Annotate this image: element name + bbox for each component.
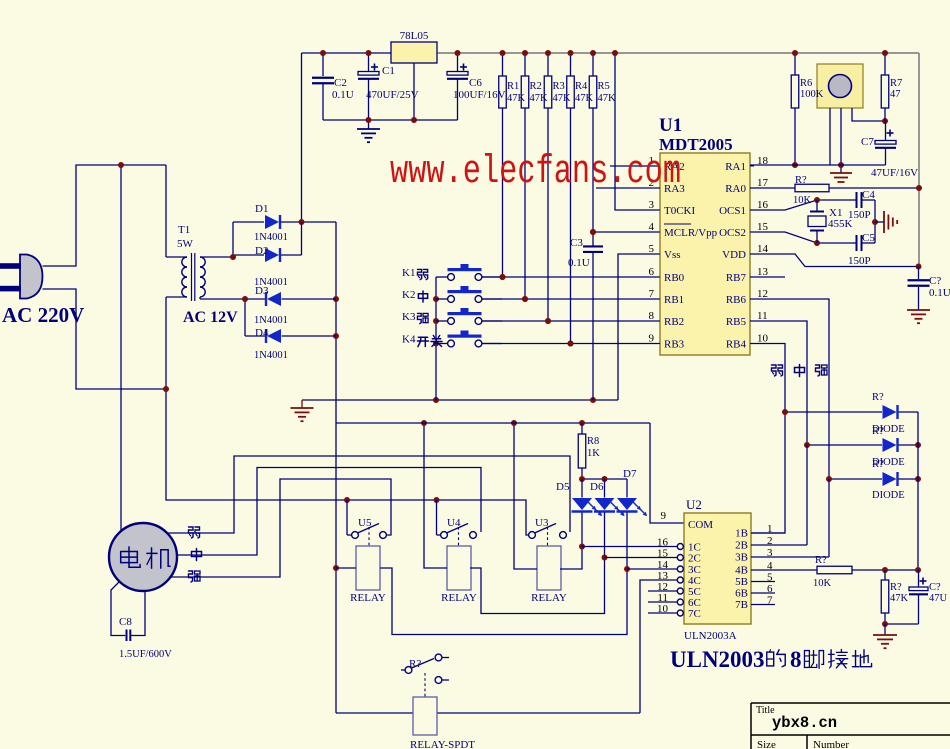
LED D7 xyxy=(626,479,628,498)
svg-text:8: 8 xyxy=(649,310,655,322)
wire +12V rail down to relays xyxy=(335,222,337,713)
labels weak mid strong xyxy=(772,365,783,376)
IC U2 ULN2003A xyxy=(684,513,751,624)
diode row 3 xyxy=(829,478,882,480)
crystal X1 455K xyxy=(816,200,818,212)
resistor R3 47K xyxy=(547,53,549,76)
svg-text:U4: U4 xyxy=(447,517,461,529)
wire 2C row xyxy=(605,557,678,559)
svg-text:R?: R? xyxy=(872,426,884,437)
wire U4 contact riser xyxy=(436,500,438,535)
svg-text:3: 3 xyxy=(649,199,655,211)
svg-text:RB4: RB4 xyxy=(726,339,747,351)
svg-text:D7: D7 xyxy=(623,468,637,480)
regulator 78L05 xyxy=(391,42,437,63)
svg-text:Vss: Vss xyxy=(664,249,681,261)
wire filter ground bus xyxy=(323,119,458,121)
wire MCLR row xyxy=(593,231,660,233)
svg-text:Size: Size xyxy=(757,739,776,749)
label strong at motor xyxy=(189,571,201,582)
svg-text:R?: R? xyxy=(815,555,827,566)
svg-text:D2: D2 xyxy=(255,245,268,257)
wire D3 D4 cathodes xyxy=(244,299,246,336)
svg-text:D5: D5 xyxy=(556,481,570,493)
svg-text:D4: D4 xyxy=(255,327,269,339)
wire Vss riser xyxy=(618,254,660,400)
svg-text:78L05: 78L05 xyxy=(400,30,429,42)
capacitor C? 0.1U at VDD xyxy=(918,267,920,280)
svg-text:47K: 47K xyxy=(507,93,526,104)
U2 pin 16 1C xyxy=(677,544,683,550)
svg-text:D3: D3 xyxy=(255,285,269,297)
IR sensor module xyxy=(817,64,863,108)
wire OCS1 to crystal top xyxy=(750,200,857,210)
relay U3 switch xyxy=(529,532,536,539)
svg-text:1B: 1B xyxy=(735,528,748,540)
label weak at motor xyxy=(189,527,200,538)
diode D1 1N4001 xyxy=(265,215,279,229)
resistor R? 10K (RA0) xyxy=(750,187,795,189)
wire main ground row xyxy=(302,399,618,401)
wire motor strong xyxy=(169,479,391,577)
svg-text:0.1U: 0.1U xyxy=(929,287,950,299)
svg-text:C4: C4 xyxy=(862,189,875,201)
svg-text:C5: C5 xyxy=(862,232,875,244)
svg-text:T0CKI: T0CKI xyxy=(664,205,696,217)
svg-text:R?: R? xyxy=(872,392,884,403)
label on-off xyxy=(417,337,428,346)
svg-text:5W: 5W xyxy=(177,238,194,250)
relay U4 coil box xyxy=(447,546,471,590)
svg-text:C7: C7 xyxy=(861,136,874,148)
resistor R7 47 xyxy=(884,53,886,75)
svg-text:6B: 6B xyxy=(735,588,748,600)
svg-text:RA1: RA1 xyxy=(725,161,746,173)
LED D6 xyxy=(604,479,606,498)
junction dots top bus xyxy=(320,50,326,56)
svg-text:0.1U: 0.1U xyxy=(332,89,354,101)
sensor ground xyxy=(830,172,852,174)
svg-text:C2: C2 xyxy=(334,77,347,89)
wire COM riser xyxy=(650,423,684,523)
svg-text:47K: 47K xyxy=(575,93,594,104)
resistor R8 1K xyxy=(581,423,583,434)
MCLR overline xyxy=(664,223,691,225)
diode D? DIODE 2 xyxy=(883,438,897,452)
title block xyxy=(751,702,950,704)
svg-text:OCS1: OCS1 xyxy=(719,205,746,217)
wire D1 D2 anodes xyxy=(232,222,234,257)
svg-text:ULN2003: ULN2003 xyxy=(670,647,765,672)
wire SPDT coil right xyxy=(437,712,640,714)
wire RB6 (strong) xyxy=(750,299,829,479)
svg-text:1N4001: 1N4001 xyxy=(254,232,288,243)
diode D2 1N4001 xyxy=(265,248,279,262)
svg-text:9: 9 xyxy=(649,333,655,345)
svg-text:R?: R? xyxy=(795,175,807,186)
wire plug top to transformer xyxy=(43,165,167,266)
wire secondary bottom to D3/D4 xyxy=(199,297,201,299)
svg-text:RA0: RA0 xyxy=(725,183,746,195)
VDD cap ground xyxy=(918,296,920,310)
wire 4B row with R? 10K xyxy=(751,569,817,571)
wire motor live feed xyxy=(120,165,122,532)
svg-text:C?: C? xyxy=(929,275,941,287)
wire 1B row xyxy=(751,532,785,534)
sensor pin left xyxy=(829,108,831,165)
relay U4 switch xyxy=(441,532,448,539)
svg-text:U1: U1 xyxy=(659,115,682,136)
svg-text:R7: R7 xyxy=(890,78,902,89)
svg-text:14: 14 xyxy=(757,243,769,255)
svg-text:1N4001: 1N4001 xyxy=(254,315,288,326)
svg-text:47U: 47U xyxy=(929,593,948,604)
wire top +12V bus (left of regulator) xyxy=(302,52,392,54)
wire D4 anode xyxy=(282,335,337,337)
svg-text:47K: 47K xyxy=(890,593,909,604)
U2 pin 11 6C xyxy=(677,599,683,605)
wire SPDT coil left xyxy=(336,712,413,714)
svg-text:4: 4 xyxy=(649,221,655,233)
U2 pin 14 3C xyxy=(677,566,683,572)
svg-text:RELAY: RELAY xyxy=(531,592,567,604)
resistor R4 47K xyxy=(570,53,572,76)
stub 6C xyxy=(648,601,677,603)
svg-text:K3: K3 xyxy=(402,311,416,323)
sensor pin center to ground xyxy=(840,108,842,173)
pin2 stub xyxy=(596,187,660,189)
svg-text:C6: C6 xyxy=(469,77,482,89)
wire T0CKI pull-up xyxy=(615,53,660,210)
svg-text:OCS2: OCS2 xyxy=(719,227,746,239)
diode D? DIODE 1 xyxy=(883,405,897,419)
label weak xyxy=(417,269,427,279)
pin13 stub xyxy=(750,276,785,278)
wire U5 contact riser xyxy=(346,500,348,535)
svg-text:DIODE: DIODE xyxy=(872,490,905,501)
wire bottom ground join xyxy=(885,623,919,625)
crystal ground (rotated) xyxy=(875,221,884,223)
label mid xyxy=(418,291,427,302)
svg-text:47K: 47K xyxy=(553,93,572,104)
relay U5 switch xyxy=(352,532,359,539)
resistor R? 47K bottom xyxy=(884,570,886,580)
svg-text:VDD: VDD xyxy=(722,249,746,261)
IC U1 MDT2005 xyxy=(660,153,750,355)
capacitor C7 47UF/16V xyxy=(885,121,887,141)
svg-text:R1: R1 xyxy=(507,81,519,92)
wire 78L05 ground pin xyxy=(413,63,415,120)
svg-text:17: 17 xyxy=(757,177,769,189)
U2 pin 15 2C xyxy=(677,555,683,561)
pushbutton K2 xyxy=(436,298,448,300)
U2 pin 13 4C xyxy=(677,577,683,583)
diode D3 1N4001 xyxy=(267,292,281,306)
svg-text:1K: 1K xyxy=(587,448,600,459)
diode row 2 xyxy=(807,444,882,446)
svg-text:R8: R8 xyxy=(587,436,599,447)
pushbutton K1 xyxy=(436,276,448,278)
svg-text:MCLR/Vpp: MCLR/Vpp xyxy=(664,227,718,239)
svg-text:8: 8 xyxy=(790,647,802,672)
svg-text:R4: R4 xyxy=(575,81,588,92)
wire RA1 row xyxy=(750,164,886,166)
svg-text:100UF/16V: 100UF/16V xyxy=(453,89,506,101)
svg-text:5: 5 xyxy=(649,243,655,255)
stub 5B xyxy=(751,581,775,583)
wire +5V bus (gray, regulator output) xyxy=(437,52,919,54)
wire +5V right vertical (gray) xyxy=(918,53,920,267)
svg-text:C8: C8 xyxy=(119,616,132,628)
svg-text:47K: 47K xyxy=(598,93,617,104)
svg-text:RELAY-SPDT: RELAY-SPDT xyxy=(410,739,475,749)
diode D? DIODE 3 xyxy=(883,472,897,486)
svg-text:2B: 2B xyxy=(735,540,748,552)
wire 2B row xyxy=(751,544,807,546)
wire 4C row xyxy=(640,580,677,713)
capacitor C4 150P xyxy=(856,192,858,208)
resistor R2 47K xyxy=(524,53,526,76)
svg-text:47: 47 xyxy=(890,89,901,100)
relay U3 coil box xyxy=(537,546,561,590)
wire mains common to relays xyxy=(166,389,529,535)
svg-text:100K: 100K xyxy=(800,89,824,100)
svg-text:RB6: RB6 xyxy=(726,294,747,306)
wire U4 coil return xyxy=(470,558,605,614)
U2 pin 12 5C xyxy=(677,588,683,594)
svg-text:4B: 4B xyxy=(735,565,748,577)
svg-text:RELAY: RELAY xyxy=(441,592,477,604)
svg-text:10K: 10K xyxy=(813,578,832,589)
svg-text:150P: 150P xyxy=(848,209,871,221)
svg-text:47K: 47K xyxy=(530,93,549,104)
wire bridge output riser to bus xyxy=(301,53,303,222)
capacitor C3 xyxy=(592,232,594,247)
wire 1C row xyxy=(582,546,677,548)
relay U5 coil box xyxy=(356,546,380,590)
capacitor C1 xyxy=(368,53,370,72)
svg-text:K2: K2 xyxy=(402,289,415,301)
wire LED anode row xyxy=(582,478,627,480)
label mid at motor xyxy=(192,549,202,561)
svg-text:11: 11 xyxy=(757,310,768,322)
wire +12V LED feed row xyxy=(336,422,650,424)
motor xyxy=(109,523,177,591)
ground symbol left xyxy=(301,400,303,408)
svg-text:C1: C1 xyxy=(382,65,395,77)
svg-text:D1: D1 xyxy=(255,203,268,215)
svg-text:AC 220V: AC 220V xyxy=(2,303,84,327)
label strong xyxy=(417,313,428,323)
wire plug bottom loop xyxy=(43,289,167,389)
svg-text:6: 6 xyxy=(649,266,655,278)
relay SPDT coil box xyxy=(413,697,437,735)
svg-text:470UF/25V: 470UF/25V xyxy=(366,89,419,101)
capacitor C8 1.5UF/600V xyxy=(111,582,125,636)
pushbutton K3 xyxy=(436,320,448,322)
ground under C1 xyxy=(368,120,370,129)
wire button rows to MCU xyxy=(482,276,660,278)
pushbutton K4 xyxy=(436,343,448,345)
svg-text:RELAY: RELAY xyxy=(350,592,386,604)
svg-text:RB2: RB2 xyxy=(664,316,684,328)
resistor R1 47K xyxy=(502,53,504,76)
wire D2 cathode up xyxy=(301,222,303,255)
capacitor C6 xyxy=(457,53,459,72)
wire motor mid xyxy=(177,468,481,556)
svg-text:12: 12 xyxy=(757,288,768,300)
svg-text:RB1: RB1 xyxy=(664,294,684,306)
svg-text:16: 16 xyxy=(757,199,769,211)
capacitor C? 47U xyxy=(918,570,920,587)
svg-text:7C: 7C xyxy=(688,608,701,620)
svg-text:1.5UF/600V: 1.5UF/600V xyxy=(119,649,172,660)
svg-text:R2: R2 xyxy=(530,81,542,92)
wire RB4 (weak) xyxy=(750,344,785,534)
svg-text:K1: K1 xyxy=(402,267,415,279)
svg-text:3B: 3B xyxy=(735,552,748,564)
wire U5 coil return xyxy=(380,568,627,635)
svg-text:R?: R? xyxy=(872,459,884,470)
LED D5 xyxy=(581,479,583,498)
wire D3 anode xyxy=(282,298,337,300)
wire button rail xyxy=(435,277,437,400)
stub 7C xyxy=(648,612,677,614)
wire 3B row xyxy=(751,556,829,558)
resistor R5 47K xyxy=(592,53,594,76)
capacitor C5 150P xyxy=(856,235,858,251)
svg-text:U2: U2 xyxy=(686,497,702,512)
svg-text:47UF/16V: 47UF/16V xyxy=(871,167,918,179)
diode row 1 xyxy=(785,411,882,413)
svg-text:15: 15 xyxy=(757,221,769,233)
svg-text:150P: 150P xyxy=(848,255,871,267)
svg-text:R?: R? xyxy=(890,582,902,593)
svg-text:2C: 2C xyxy=(688,553,701,565)
stub 7B xyxy=(751,604,775,606)
svg-text:D6: D6 xyxy=(590,481,604,493)
transformer T1 primary side wires xyxy=(165,165,167,257)
resistor R6 100K xyxy=(794,53,796,75)
svg-text:13: 13 xyxy=(757,266,769,278)
svg-text:R3: R3 xyxy=(553,81,565,92)
svg-text:9: 9 xyxy=(661,510,667,522)
svg-text:RB3: RB3 xyxy=(664,339,685,351)
wire U3 coil feed xyxy=(514,423,537,569)
svg-text:RB0: RB0 xyxy=(664,272,685,284)
svg-text:Number: Number xyxy=(813,739,849,749)
U2 pin 10 7C xyxy=(677,610,683,616)
svg-text:T1: T1 xyxy=(178,224,190,236)
stub 6B xyxy=(751,592,775,594)
svg-text:www.elecfans.com: www.elecfans.com xyxy=(390,150,681,195)
wire secondary top to D1/D2 xyxy=(166,256,187,258)
svg-text:COM: COM xyxy=(688,519,713,531)
sensor pin right xyxy=(852,108,885,121)
svg-text:RB7: RB7 xyxy=(726,272,747,284)
svg-text:ybx8.cn: ybx8.cn xyxy=(772,714,837,732)
svg-text:R6: R6 xyxy=(800,78,812,89)
svg-text:AC 12V: AC 12V xyxy=(183,309,238,326)
wire motor weak xyxy=(168,456,570,533)
stub 5C xyxy=(648,590,677,592)
svg-text:R5: R5 xyxy=(598,81,610,92)
svg-text:7B: 7B xyxy=(735,599,748,611)
svg-text:5B: 5B xyxy=(735,576,748,588)
svg-text:ULN2003A: ULN2003A xyxy=(684,630,737,642)
wire diode cathode bus xyxy=(917,412,919,570)
wire C4/C5 common xyxy=(874,200,876,243)
capacitor C2 xyxy=(322,53,324,76)
svg-text:10: 10 xyxy=(757,333,769,345)
svg-text:1N4001: 1N4001 xyxy=(254,350,288,361)
diode D4 1N4001 xyxy=(267,329,281,343)
svg-text:7: 7 xyxy=(649,288,655,300)
svg-text:C3: C3 xyxy=(570,237,583,249)
pin1 stub xyxy=(610,165,660,167)
wire OCS2 to crystal bottom xyxy=(750,232,857,243)
AC plug xyxy=(20,255,43,299)
svg-text:RB5: RB5 xyxy=(726,316,747,328)
wire RB5 (mid) xyxy=(750,321,807,445)
svg-text:C?: C? xyxy=(929,582,941,593)
svg-text:0.1U: 0.1U xyxy=(568,257,590,269)
wire D1 cathode to +12V riser xyxy=(281,221,336,223)
svg-text:U5: U5 xyxy=(358,517,372,529)
bottom ground xyxy=(884,624,886,635)
wire U3 coil return xyxy=(560,547,582,570)
wire 3C row xyxy=(627,568,677,570)
wire U4 coil feed xyxy=(424,423,447,568)
svg-text:K4: K4 xyxy=(402,334,416,346)
wire U5 coil left xyxy=(336,567,356,569)
wire VDD row xyxy=(750,254,919,267)
svg-text:U3: U3 xyxy=(535,517,549,529)
